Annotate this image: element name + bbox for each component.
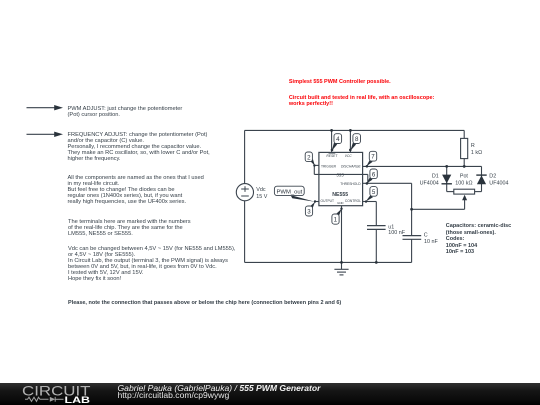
svg-text:15 V: 15 V — [256, 194, 267, 200]
svg-text:555: 555 — [336, 172, 344, 177]
svg-text:1 kΩ: 1 kΩ — [471, 150, 482, 156]
svg-text:C: C — [424, 232, 428, 238]
svg-text:D2: D2 — [489, 174, 496, 180]
svg-text:Pot: Pot — [460, 174, 469, 180]
svg-text:THRESHOLD: THRESHOLD — [340, 182, 361, 186]
svg-text:RESET: RESET — [326, 154, 338, 158]
svg-text:GND: GND — [337, 201, 343, 205]
svg-text:R: R — [471, 143, 475, 149]
svg-text:3: 3 — [307, 208, 311, 215]
svg-text:7: 7 — [371, 154, 375, 161]
svg-text:PWM_out: PWM_out — [276, 190, 302, 196]
svg-text:6: 6 — [372, 171, 376, 178]
svg-text:DISCHARGE: DISCHARGE — [341, 165, 361, 169]
svg-text:LAB: LAB — [65, 394, 91, 405]
svg-text:CONTROL: CONTROL — [345, 199, 361, 203]
svg-text:VCC: VCC — [345, 154, 353, 158]
svg-text:OUTPUT: OUTPUT — [321, 199, 335, 203]
svg-text:D1: D1 — [432, 174, 439, 180]
svg-text:1: 1 — [334, 216, 338, 223]
svg-text:NE555: NE555 — [332, 192, 348, 198]
svg-text:10 nF: 10 nF — [424, 239, 438, 245]
svg-text:100 nF: 100 nF — [388, 230, 405, 236]
svg-text:TRIGGER: TRIGGER — [321, 165, 337, 169]
svg-text:UF4004: UF4004 — [489, 180, 508, 186]
svg-text:Vdc: Vdc — [256, 187, 266, 193]
svg-text:4: 4 — [336, 136, 340, 143]
svg-text:100 kΩ: 100 kΩ — [455, 180, 472, 186]
svg-text:2: 2 — [307, 154, 311, 161]
svg-text:UF4004: UF4004 — [420, 180, 439, 186]
svg-text:5: 5 — [372, 189, 376, 196]
svg-text:8: 8 — [355, 136, 359, 143]
